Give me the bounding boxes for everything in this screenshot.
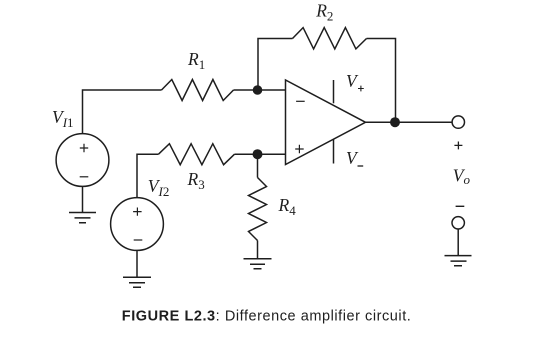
wire: lower terminal to ground (457, 229, 459, 256)
node: inverting input junction (253, 85, 263, 95)
resistor R1 (162, 80, 234, 101)
wire: op-amp output (366, 121, 453, 123)
ground: under R4 (244, 259, 272, 269)
wire: R4 to ground (257, 241, 259, 259)
wire: R2 to output vertical (367, 39, 396, 123)
svg-text:FIGURE L2.3: Difference amplif: FIGURE L2.3: Difference amplifier circui… (122, 309, 412, 325)
polarity minus inside VI2 (134, 239, 143, 241)
label V+ subscript plus sign (358, 86, 364, 92)
svg-text:R2: R2 (315, 1, 333, 24)
wire: VI2 top lead (137, 154, 159, 198)
svg-text:V: V (346, 148, 359, 168)
op-amp non-inverting input plus sign (295, 145, 304, 153)
svg-text:VI2: VI2 (148, 176, 170, 199)
svg-text:V: V (346, 71, 359, 91)
wire: VI1 bottom lead (82, 186, 84, 212)
output minus polarity mark (456, 205, 465, 207)
ground: under VI1 (69, 213, 96, 223)
node: output junction (390, 117, 400, 127)
ground: under output terminal (445, 256, 472, 266)
output plus polarity mark (454, 142, 462, 150)
wire: node to R4 (257, 154, 259, 177)
resistor R3 (159, 144, 235, 165)
polarity plus inside VI2 (133, 208, 142, 216)
wire: R3 to op-amp non-inverting input (235, 153, 286, 155)
svg-text:R1: R1 (187, 49, 205, 72)
svg-text:R4: R4 (278, 195, 297, 218)
svg-text:Vo: Vo (453, 166, 471, 188)
svg-text:R3: R3 (187, 169, 205, 192)
wire: VI1 top lead to R1 (83, 90, 162, 134)
svg-text:VI1: VI1 (52, 107, 74, 130)
op-amp U1 body (286, 80, 366, 165)
resistor R2 (293, 28, 367, 49)
resistor R4 (249, 178, 267, 241)
label V- subscript minus sign (358, 165, 364, 167)
voltage source VI2 (111, 198, 164, 251)
polarity plus inside VI1 (80, 144, 88, 152)
op-amp inverting input minus sign (296, 100, 305, 102)
terminal: Vo minus (open circle) (452, 217, 464, 229)
voltage source VI1 (56, 134, 109, 187)
op-amp V- power pin (333, 139, 335, 163)
wire: feedback left vertical and top run (258, 39, 293, 91)
ground: under VI2 (123, 277, 151, 287)
wire: VI2 bottom lead (136, 250, 138, 277)
wire: R1 to op-amp inverting input (234, 89, 286, 91)
op-amp V+ power pin (333, 80, 335, 103)
polarity minus inside VI1 (80, 176, 89, 178)
terminal: Vo plus (open circle) (452, 116, 464, 128)
node: non-inverting input junction (253, 149, 263, 159)
